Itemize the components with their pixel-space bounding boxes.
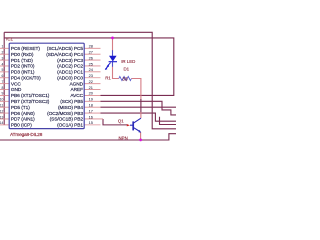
- transistor Q1 base pin arrow: [127, 124, 130, 126]
- svg-text:AVCC: AVCC: [70, 93, 83, 99]
- wire PB4: [101, 106, 177, 108]
- svg-text:D1: D1: [124, 66, 130, 71]
- svg-text:Q1: Q1: [118, 118, 124, 123]
- wire PB3 staircase: [101, 113, 177, 121]
- IC1 pin labels left column: [11, 46, 50, 129]
- IC IC1 box: [9, 43, 84, 128]
- svg-text:26: 26: [89, 55, 93, 60]
- pin numbers right 28..15: [89, 44, 94, 126]
- svg-text:PD3 (INT1): PD3 (INT1): [11, 70, 35, 76]
- wire LED anode feed: [112, 38, 114, 51]
- svg-text:27: 27: [89, 49, 93, 54]
- svg-text:(SDA/ADC4) PC4: (SDA/ADC4) PC4: [46, 52, 83, 58]
- svg-text:(SCL/ADC5) PC5: (SCL/ADC5) PC5: [47, 46, 84, 52]
- wire VCC top rail: [4, 32, 176, 129]
- svg-text:8: 8: [2, 86, 4, 90]
- svg-text:(ADC2) PC2: (ADC2) PC2: [57, 64, 83, 70]
- svg-text:21: 21: [89, 85, 93, 90]
- svg-text:(OC1A) PB1: (OC1A) PB1: [57, 123, 83, 129]
- wire base from PB2: [103, 119, 127, 125]
- svg-text:PC6 (RESET): PC6 (RESET): [11, 46, 40, 52]
- svg-text:15: 15: [89, 120, 93, 125]
- svg-text:22: 22: [89, 79, 93, 84]
- svg-text:PD6 (AIN0): PD6 (AIN0): [11, 111, 35, 117]
- svg-text:PB0 (ICP): PB0 (ICP): [11, 123, 32, 129]
- svg-text:6: 6: [2, 74, 4, 78]
- pin stubs left side: [0, 48, 9, 125]
- svg-text:(MISO) PB4: (MISO) PB4: [58, 105, 83, 111]
- svg-text:GND: GND: [11, 87, 22, 93]
- svg-text:VCC: VCC: [11, 81, 22, 87]
- junction node emitter-ground: [139, 139, 142, 142]
- svg-text:PD1 (TxD): PD1 (TxD): [11, 58, 33, 64]
- svg-text:NPN: NPN: [119, 136, 128, 141]
- svg-text:PB7 (XT2/TOSC2): PB7 (XT2/TOSC2): [11, 99, 50, 105]
- wire R1 to collector: [132, 79, 141, 101]
- svg-text:16: 16: [89, 114, 93, 119]
- svg-text:AREF: AREF: [71, 87, 84, 93]
- svg-text:PD5 (T1): PD5 (T1): [11, 105, 30, 111]
- svg-text:12: 12: [0, 109, 4, 113]
- LED D1 emission arrows: [105, 63, 111, 70]
- junction node LED anode: [111, 37, 114, 40]
- svg-text:ATmega8-DIL28: ATmega8-DIL28: [10, 132, 43, 137]
- transistor Q1: [130, 118, 141, 131]
- wire emitter to ground rail: [140, 132, 142, 140]
- resistor R1 zigzag: [119, 76, 132, 80]
- pin numbers left 1..14: [0, 45, 4, 126]
- LED D1 symbol: [109, 56, 117, 62]
- svg-text:19: 19: [89, 97, 93, 102]
- svg-text:(OC2/MOSI) PB3: (OC2/MOSI) PB3: [47, 111, 83, 117]
- svg-text:7: 7: [2, 80, 4, 84]
- svg-text:(ADC0) PC0: (ADC0) PC0: [57, 75, 83, 81]
- svg-text:5: 5: [2, 68, 4, 72]
- svg-text:14: 14: [0, 121, 4, 125]
- wire LED cathode to R1: [112, 62, 114, 67]
- svg-text:20: 20: [89, 91, 94, 96]
- svg-text:13: 13: [0, 115, 4, 119]
- svg-text:PB6 (XT1/TOSC1): PB6 (XT1/TOSC1): [11, 93, 50, 99]
- svg-text:PD4 (XCK/T0): PD4 (XCK/T0): [11, 75, 41, 81]
- wire PB5 staircase: [101, 101, 177, 115]
- svg-text:1: 1: [2, 45, 4, 49]
- svg-text:10: 10: [0, 98, 4, 102]
- svg-text:23: 23: [89, 73, 93, 78]
- pin stubs right side: [84, 48, 103, 125]
- wire ground bottom rail: [0, 134, 176, 140]
- svg-text:(SCK) PB5: (SCK) PB5: [60, 99, 83, 105]
- svg-text:AGND: AGND: [69, 81, 83, 87]
- wire left vertical bus: [3, 32, 5, 125]
- svg-text:IC1: IC1: [6, 36, 13, 41]
- svg-text:IR LED: IR LED: [121, 59, 135, 64]
- svg-text:11: 11: [0, 104, 4, 108]
- wire AVCC rail: [4, 38, 174, 96]
- svg-text:3: 3: [2, 56, 4, 60]
- svg-text:PD0 (RxD): PD0 (RxD): [11, 52, 34, 58]
- svg-text:9: 9: [2, 92, 4, 96]
- svg-text:PD2 (INT0): PD2 (INT0): [11, 64, 35, 70]
- svg-text:PD7 (AIN1): PD7 (AIN1): [11, 117, 35, 123]
- svg-text:28: 28: [89, 44, 93, 49]
- svg-text:(SS/OC1B) PB2: (SS/OC1B) PB2: [50, 117, 84, 123]
- svg-text:(ADC3) PC3: (ADC3) PC3: [57, 58, 83, 64]
- svg-text:4: 4: [2, 62, 4, 66]
- svg-text:24: 24: [89, 67, 94, 72]
- svg-text:17: 17: [89, 108, 93, 113]
- svg-text:2: 2: [2, 50, 4, 54]
- wire elbow exit: [160, 117, 177, 125]
- svg-text:33: 33: [122, 77, 128, 83]
- svg-text:R1: R1: [105, 75, 111, 80]
- svg-text:18: 18: [89, 103, 93, 108]
- svg-text:(ADC1) PC1: (ADC1) PC1: [57, 70, 83, 76]
- IC1 pin labels right column: [46, 46, 83, 129]
- svg-text:25: 25: [89, 61, 93, 66]
